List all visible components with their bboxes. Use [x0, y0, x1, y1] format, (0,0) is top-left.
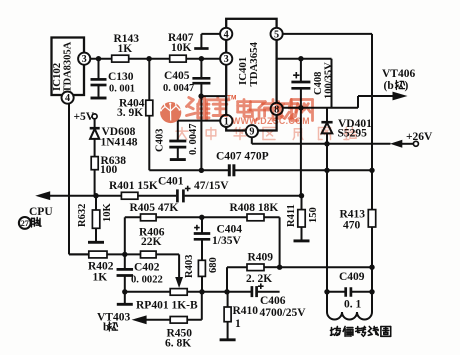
svg-text:0. 0047: 0. 0047 [188, 124, 199, 156]
svg-text:IC102: IC102 [51, 63, 63, 91]
svg-text:R403: R403 [184, 255, 195, 278]
svg-text:9: 9 [249, 127, 254, 138]
svg-text:WWW.DZSC.COM: WWW.DZSC.COM [232, 116, 310, 126]
svg-text:+26V: +26V [406, 131, 433, 143]
svg-text:6. 8K: 6. 8K [165, 338, 191, 350]
svg-text:TM: TM [227, 95, 236, 102]
svg-text:C403: C403 [155, 129, 166, 152]
svg-text:4700/25V: 4700/25V [260, 307, 307, 319]
svg-text:4: 4 [224, 29, 229, 40]
svg-text:3. 9K: 3. 9K [117, 107, 143, 119]
svg-text:C405: C405 [164, 70, 190, 82]
svg-text:0. 1: 0. 1 [344, 299, 362, 311]
svg-text:C408: C408 [313, 72, 324, 95]
svg-text:0. 0022: 0. 0022 [131, 275, 163, 286]
svg-text:R409: R409 [248, 252, 274, 264]
svg-text:C402: C402 [134, 262, 160, 274]
svg-text:C401: C401 [158, 176, 184, 188]
svg-text:C404: C404 [217, 224, 243, 236]
svg-text:1N4148: 1N4148 [101, 137, 138, 149]
svg-text:680: 680 [208, 257, 219, 273]
svg-text:27: 27 [21, 219, 29, 228]
svg-text:R405 47K: R405 47K [130, 202, 179, 214]
svg-text:(b: (b [384, 80, 394, 92]
svg-text:3: 3 [82, 54, 87, 65]
svg-text:+5V: +5V [74, 111, 95, 123]
svg-text:R411: R411 [286, 204, 297, 227]
svg-text:100/35V: 100/35V [324, 62, 335, 99]
svg-text:1: 1 [235, 318, 241, 330]
svg-text:R401 15K: R401 15K [109, 180, 158, 192]
svg-text:VT406: VT406 [382, 68, 415, 80]
svg-text:): ) [405, 80, 409, 92]
svg-text:R410: R410 [233, 305, 259, 317]
svg-text:470: 470 [343, 220, 361, 232]
svg-text:150: 150 [308, 207, 319, 223]
svg-text:R632: R632 [77, 204, 88, 227]
svg-text:47/15V: 47/15V [194, 180, 229, 192]
svg-text:TDA3654: TDA3654 [248, 42, 260, 87]
svg-text:0. 0047: 0. 0047 [163, 83, 194, 94]
svg-text:1K: 1K [118, 43, 133, 55]
svg-text:C406: C406 [260, 295, 286, 307]
svg-text:1: 1 [224, 116, 229, 127]
svg-text:22K: 22K [141, 236, 162, 248]
svg-text:1/35V: 1/35V [212, 235, 241, 247]
svg-text:R408 18K: R408 18K [230, 202, 279, 214]
svg-text:CPU: CPU [29, 206, 53, 218]
svg-text:2. 2K: 2. 2K [246, 273, 272, 285]
svg-text:10K: 10K [102, 203, 113, 223]
svg-text:3: 3 [224, 54, 229, 65]
svg-text:C409: C409 [339, 271, 365, 283]
svg-text:0. 001: 0. 001 [109, 84, 135, 95]
svg-text:RP401 1K-B: RP401 1K-B [136, 300, 198, 312]
svg-text:C130: C130 [108, 71, 134, 83]
svg-text:100: 100 [100, 164, 118, 176]
svg-text:C407 470P: C407 470P [216, 151, 269, 163]
svg-text:5: 5 [274, 29, 279, 40]
svg-text:1K: 1K [93, 272, 108, 284]
svg-text:TDA8305A: TDA8305A [63, 41, 74, 92]
svg-text:b: b [103, 322, 109, 334]
svg-text:10K: 10K [171, 42, 192, 54]
svg-text:4: 4 [65, 93, 70, 104]
